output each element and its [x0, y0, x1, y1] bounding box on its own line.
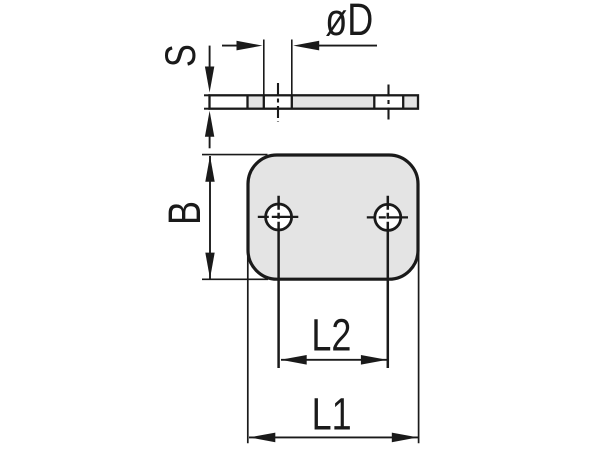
dimension oD right arrowhead	[293, 41, 319, 51]
dimension oD right leader line	[317, 45, 377, 47]
section divider plate left edge	[246, 95, 248, 109]
svg-text:S: S	[157, 44, 204, 67]
dimension B bottom arrowhead	[205, 253, 214, 279]
dimension oD extension line left	[263, 40, 265, 96]
section hole 1 left wall	[263, 95, 265, 109]
dimension oD left leader line	[222, 45, 239, 47]
svg-text:øD: øD	[325, 0, 373, 45]
dimension L1 right arrowhead	[392, 433, 418, 443]
hole 2 horizontal centerline	[367, 216, 408, 218]
dimension L1 line	[249, 436, 418, 438]
hole 1 vertical centerline / L2 extension	[277, 196, 280, 368]
dimension L1 left arrowhead	[249, 433, 275, 443]
svg-text:L1: L1	[312, 389, 352, 440]
dimension oD extension line right	[291, 40, 293, 96]
section view plate body outline	[204, 95, 418, 108]
hole 1 horizontal centerline	[258, 216, 299, 218]
section hole 2 centerline	[387, 85, 389, 121]
front view plate	[248, 155, 418, 279]
dimension S lower arrowhead	[205, 111, 214, 137]
dimension B line	[209, 156, 211, 279]
section hole 2 left wall	[373, 95, 375, 109]
section hole 2 right wall	[402, 95, 404, 109]
dimension S line lower	[209, 136, 211, 148]
dimension L1 left extension line	[247, 253, 249, 443]
hole 2 vertical centerline / L2 extension	[387, 196, 390, 368]
svg-text:L2: L2	[311, 310, 351, 361]
dimension B top extension line	[202, 154, 268, 156]
dimension S upper arrowhead	[205, 67, 214, 93]
dimension L2 right arrowhead	[361, 355, 387, 365]
dimension oD left arrowhead	[237, 41, 263, 51]
hole 2	[375, 204, 401, 230]
dimension L2 left arrowhead	[281, 355, 307, 365]
hole 1	[266, 204, 292, 230]
dimension S line upper	[209, 46, 211, 69]
section hole 1 right wall	[291, 95, 293, 109]
section hole 1 centerline	[277, 83, 279, 122]
dimension L2 line	[281, 359, 387, 361]
dimension B bottom extension line	[202, 278, 268, 280]
dimension L1 right extension line	[418, 250, 420, 443]
dimension B top arrowhead	[205, 156, 214, 182]
svg-text:B: B	[159, 201, 210, 225]
